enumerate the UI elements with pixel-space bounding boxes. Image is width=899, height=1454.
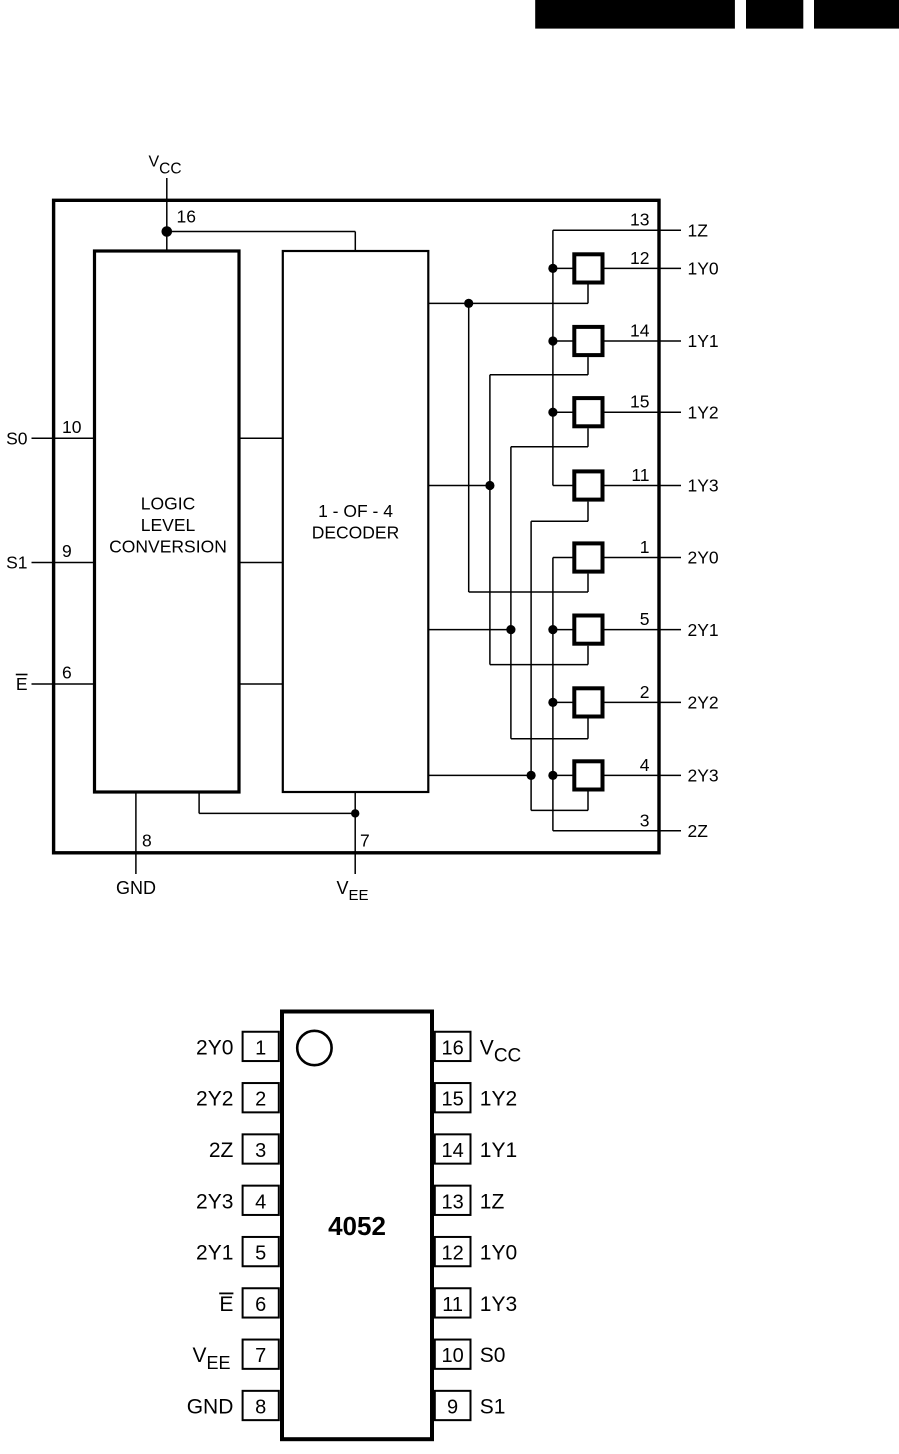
wire logic VEE stub [198, 792, 200, 813]
wire control 2Y2 [511, 738, 588, 740]
DIP pin box 12 [435, 1237, 471, 1266]
switch 2Y3 [574, 761, 602, 789]
wire S1 logic-to-decoder [239, 562, 283, 564]
wire VCC drop into decoder [354, 232, 356, 252]
svg-text:2Y2: 2Y2 [688, 693, 719, 713]
junction dot VCC node [162, 226, 173, 237]
wire left pin 2Y0 [553, 557, 576, 559]
svg-text:4: 4 [255, 1191, 266, 1213]
wire control 1Y1 [490, 374, 588, 376]
wire right pin 2Y1 [603, 629, 682, 631]
DIP pin box 9 [435, 1391, 471, 1420]
junction dot pair 0 [464, 299, 473, 308]
svg-text:1Y2: 1Y2 [688, 402, 719, 422]
wire decoder output 2 [428, 629, 511, 631]
block U1 LOGIC LEVEL CONVERSION [95, 251, 240, 792]
DIP pin box 4 [243, 1186, 279, 1215]
svg-text:1: 1 [640, 537, 650, 557]
DIP pin box 5 [243, 1237, 279, 1266]
svg-text:6: 6 [62, 663, 72, 683]
DIP pin box 7 [243, 1340, 279, 1369]
wire 2Z output [553, 830, 681, 832]
wire right pin 1Y3 [603, 485, 682, 487]
wire left pin 2Y1 [553, 629, 576, 631]
wire right pin 1Y0 [603, 267, 682, 269]
svg-text:2Z: 2Z [209, 1139, 234, 1162]
svg-text:GND: GND [187, 1396, 234, 1419]
wire right pin 1Y1 [603, 340, 682, 342]
svg-text:LEVEL: LEVEL [141, 515, 196, 535]
header bar 3 (redacted) [814, 0, 899, 29]
switch 1Y3 [574, 471, 602, 499]
wire VCC lead pin 16 [166, 178, 168, 251]
svg-text:1Y1: 1Y1 [480, 1139, 517, 1162]
svg-text:1Z: 1Z [480, 1190, 505, 1213]
svg-text:1Z: 1Z [688, 220, 709, 240]
DIP package body [282, 1012, 432, 1440]
junction dot 1Y0 on Z line [548, 264, 557, 273]
svg-text:5: 5 [640, 609, 650, 629]
wire VEE lead pin 7 [354, 792, 356, 874]
svg-text:2: 2 [255, 1089, 266, 1111]
svg-text:1Y3: 1Y3 [688, 476, 719, 496]
switch 2Y1 [574, 616, 602, 644]
svg-text:7: 7 [360, 831, 370, 851]
svg-text:12: 12 [441, 1243, 463, 1265]
DIP pin box 2 [243, 1083, 279, 1112]
junction dot 2Y3 on Z line [548, 771, 557, 780]
svg-text:12: 12 [630, 248, 649, 268]
junction dot pair 1 [485, 481, 494, 490]
svg-text:10: 10 [62, 417, 82, 437]
label U2 [312, 501, 400, 543]
junction dot 1Y2 on Z line [548, 408, 557, 417]
svg-text:E: E [219, 1293, 233, 1316]
DIP pin box 10 [435, 1340, 471, 1369]
wire control 2Y3 [531, 809, 588, 811]
svg-text:2Y2: 2Y2 [196, 1088, 233, 1111]
svg-text:2Y3: 2Y3 [688, 766, 719, 786]
wire left pin 1Y3 [553, 485, 576, 487]
svg-text:1Y1: 1Y1 [688, 331, 719, 351]
wire decoder output 1 [428, 485, 490, 487]
wire decoder output 0 to switch 1Y0 [428, 302, 588, 304]
svg-text:14: 14 [441, 1140, 463, 1162]
wire left pin 1Y0 [553, 267, 576, 269]
DIP pin box 14 [435, 1134, 471, 1163]
svg-text:9: 9 [447, 1397, 458, 1419]
wire control 2Y0 [469, 591, 588, 593]
switch 2Y0 [574, 543, 602, 571]
wire right pin 2Y2 [603, 701, 682, 703]
svg-text:1Y3: 1Y3 [480, 1293, 517, 1316]
DIP pin box 11 [435, 1288, 471, 1317]
wire right pin 2Y0 [603, 557, 682, 559]
wire right pin 2Y3 [603, 774, 682, 776]
wire pair 3 branch vertical [530, 521, 532, 810]
svg-text:1Y0: 1Y0 [480, 1242, 517, 1265]
wire 2Z common vertical [552, 558, 554, 831]
DIP pin box 15 [435, 1083, 471, 1112]
wire 1Z output [553, 229, 681, 231]
svg-text:10: 10 [441, 1345, 463, 1367]
svg-text:2Y1: 2Y1 [688, 620, 719, 640]
wire input S0 [32, 437, 95, 439]
wire control 1Y2 [511, 446, 588, 448]
svg-text:3: 3 [255, 1140, 266, 1162]
wire left pin 2Y3 [553, 774, 576, 776]
svg-text:E: E [16, 674, 28, 694]
svg-text:GND: GND [116, 878, 156, 898]
DIP label E-bar pin 6 [219, 1293, 233, 1316]
svg-text:2Y0: 2Y0 [688, 548, 719, 568]
junction dot VEE node [351, 809, 359, 817]
switch 1Y0 [574, 254, 602, 282]
svg-text:14: 14 [630, 321, 650, 341]
DIP pin box 8 [243, 1391, 279, 1420]
wire right pin 1Y2 [603, 411, 682, 413]
svg-text:15: 15 [441, 1089, 463, 1111]
svg-text:2Z: 2Z [688, 821, 709, 841]
wire left pin 1Y1 [553, 340, 576, 342]
svg-text:2Y1: 2Y1 [196, 1242, 233, 1265]
svg-text:2Y0: 2Y0 [196, 1036, 233, 1059]
switch 1Y1 [574, 327, 602, 355]
DIP pin box 3 [243, 1134, 279, 1163]
wire left pin 1Y2 [553, 411, 576, 413]
switch 2Y2 [574, 688, 602, 716]
svg-text:8: 8 [255, 1397, 266, 1419]
svg-text:9: 9 [62, 541, 72, 561]
wire GND lead pin 8 [135, 792, 137, 874]
block-diagram outer box [54, 200, 659, 853]
svg-text:1Y0: 1Y0 [688, 259, 719, 279]
switch 1Y2 [574, 398, 602, 426]
DIP pin-1 indicator circle [297, 1031, 331, 1065]
junction dot 1Y1 on Z line [548, 336, 557, 345]
svg-text:2: 2 [640, 682, 650, 702]
junction dot 2Y2 on Z line [548, 698, 557, 707]
wire input E [32, 683, 95, 685]
svg-text:5: 5 [255, 1243, 266, 1265]
wire pair 1 branch vertical [489, 375, 491, 665]
DIP pin box 13 [435, 1186, 471, 1215]
junction dot pair 3 [527, 771, 536, 780]
svg-text:16: 16 [177, 207, 196, 227]
svg-text:3: 3 [640, 810, 650, 830]
DIP pin box 16 [435, 1032, 471, 1061]
svg-text:S1: S1 [480, 1396, 506, 1419]
svg-text:13: 13 [630, 210, 649, 230]
wire left pin 2Y2 [553, 701, 576, 703]
label E-bar [16, 674, 28, 694]
header bar 1 (redacted title) [535, 0, 735, 29]
svg-text:S0: S0 [480, 1344, 506, 1367]
svg-text:11: 11 [631, 465, 649, 485]
svg-text:4052: 4052 [328, 1211, 386, 1241]
wire control 1Y3 [531, 520, 588, 522]
header bar 2 (redacted) [746, 0, 803, 29]
wire pair 2 branch vertical [510, 447, 512, 739]
svg-text:1Y2: 1Y2 [480, 1088, 517, 1111]
svg-text:6: 6 [255, 1294, 266, 1316]
svg-text:S1: S1 [6, 553, 27, 573]
svg-text:LOGIC: LOGIC [141, 494, 195, 514]
svg-text:CONVERSION: CONVERSION [109, 537, 227, 557]
svg-text:1 - OF - 4: 1 - OF - 4 [318, 501, 393, 521]
wire E logic-to-decoder [239, 683, 283, 685]
svg-text:15: 15 [630, 392, 649, 412]
junction dot pair 2 [506, 625, 515, 634]
junction dot 2Y1 on Z line [548, 625, 557, 634]
svg-text:11: 11 [442, 1294, 463, 1316]
svg-text:16: 16 [441, 1037, 463, 1059]
DIP pin box 1 [243, 1032, 279, 1061]
wire S0 logic-to-decoder [239, 437, 283, 439]
svg-text:4: 4 [640, 755, 650, 775]
svg-text:S0: S0 [6, 428, 28, 448]
svg-text:7: 7 [255, 1345, 266, 1367]
wire 1Z common vertical [552, 230, 554, 485]
wire control 2Y1 [490, 664, 588, 666]
wire decoder output 3 [428, 774, 531, 776]
wire VCC branch to decoder [167, 231, 355, 233]
wire input S1 [32, 562, 95, 564]
svg-text:DECODER: DECODER [312, 523, 400, 543]
block U2 1-OF-4 DECODER [283, 251, 429, 792]
svg-text:1: 1 [255, 1037, 266, 1059]
svg-text:2Y3: 2Y3 [196, 1190, 233, 1213]
svg-text:13: 13 [441, 1191, 463, 1213]
wire pair 0 branch down [468, 303, 470, 592]
label U1 [109, 494, 227, 557]
svg-text:8: 8 [142, 831, 152, 851]
DIP pin box 6 [243, 1288, 279, 1317]
